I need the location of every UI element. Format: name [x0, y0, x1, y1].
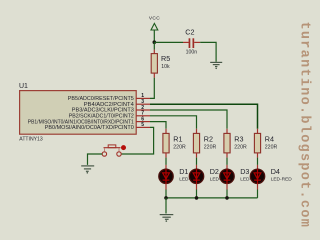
node rail D2: [195, 196, 199, 200]
wire R5 to pin 1: [150, 73, 154, 98]
wire D1 to rail: [165, 184, 167, 198]
svg-text:220R: 220R: [234, 144, 247, 150]
wire VCC to junction: [153, 31, 155, 43]
LED D4: [250, 167, 292, 184]
wire D2 to rail: [196, 184, 198, 198]
svg-text:D4: D4: [271, 167, 280, 176]
svg-text:LED-RED: LED-RED: [271, 176, 293, 182]
wire pin 3 to R4: [150, 104, 258, 129]
svg-text:turantino.blogspot.com: turantino.blogspot.com: [297, 22, 312, 229]
pin 6 stub: [136, 116, 150, 122]
svg-text:ATTINY13: ATTINY13: [19, 137, 43, 143]
pin 3 stub: [136, 99, 150, 105]
pin 5 stub: [136, 122, 150, 128]
ground (C2): [210, 62, 222, 69]
svg-text:C2: C2: [185, 28, 194, 37]
IC U1 ATTINY13 microcontroller: [19, 83, 136, 142]
wire cathode rail: [166, 197, 258, 199]
pin 2 stub: [136, 105, 150, 111]
LED D3: [220, 167, 262, 184]
node junction VCC/R5/C2: [153, 40, 157, 44]
svg-text:220R: 220R: [204, 144, 217, 150]
svg-text:D3: D3: [240, 167, 249, 176]
pin 1 stub: [136, 93, 150, 99]
power VCC: [149, 15, 160, 30]
node rail D3: [225, 196, 229, 200]
svg-text:VCC: VCC: [149, 15, 160, 21]
svg-text:220R: 220R: [265, 144, 278, 150]
svg-text:R2: R2: [204, 134, 213, 143]
wire C2 to ground: [194, 42, 216, 61]
wire rail to ground: [165, 198, 167, 214]
wire pin 7 to R2: [150, 116, 197, 129]
svg-text:100n: 100n: [186, 50, 198, 56]
svg-text:PB0/MOSI/AIN0/OC0A/TXD/PCINT0: PB0/MOSI/AIN0/OC0A/TXD/PCINT0: [45, 125, 134, 131]
wire junction to C2: [154, 41, 189, 43]
wire pin 2 to R3: [150, 110, 227, 129]
LED D2: [189, 167, 231, 184]
wire pin 5 to button: [122, 127, 154, 154]
wire D3 to rail: [226, 184, 228, 198]
svg-text:220R: 220R: [173, 144, 186, 150]
button: [102, 145, 126, 156]
svg-text:D2: D2: [210, 167, 219, 176]
LED D1: [159, 167, 201, 184]
resistor R3: [224, 129, 247, 169]
svg-text:R5: R5: [161, 54, 170, 63]
wire button to ground: [88, 154, 103, 165]
svg-text:5: 5: [141, 122, 144, 128]
svg-text:D1: D1: [179, 167, 188, 176]
node rail D1: [164, 196, 168, 200]
svg-text:R4: R4: [265, 134, 274, 143]
ground (LED rail): [160, 215, 174, 222]
pin 7 stub: [136, 111, 150, 117]
svg-text:R3: R3: [234, 134, 243, 143]
svg-text:10k: 10k: [161, 64, 170, 70]
resistor R1: [163, 129, 186, 169]
watermark turantino.blogspot.com: [297, 22, 312, 229]
svg-text:U1: U1: [19, 83, 28, 90]
ground (button): [81, 166, 94, 174]
svg-text:R1: R1: [173, 134, 182, 143]
resistor R2: [193, 129, 216, 169]
resistor R5: [151, 42, 170, 73]
capacitor C2: [185, 28, 197, 56]
resistor R4: [254, 129, 277, 169]
wire pin 6 to R1: [150, 122, 166, 129]
wire D4 to rail: [257, 184, 259, 198]
